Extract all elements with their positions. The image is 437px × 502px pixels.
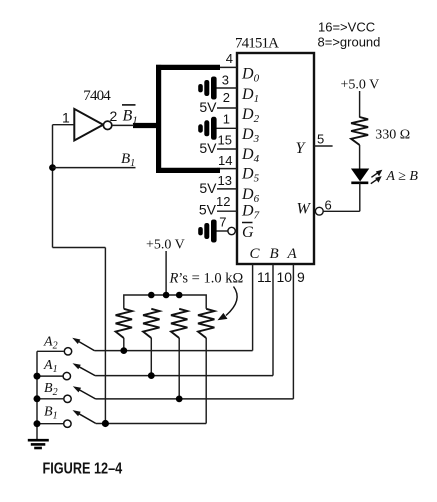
wire B1 stub east xyxy=(53,167,136,169)
resistor R4 1.0k xyxy=(198,309,214,338)
wire supply feed to rail xyxy=(165,251,167,295)
svg-text:12: 12 xyxy=(216,194,230,209)
resistor R1 1.0k xyxy=(116,309,132,338)
resistor 330 ohm xyxy=(351,117,368,145)
wire supply to resistor xyxy=(359,91,361,118)
svg-text:D2: D2 xyxy=(241,106,260,125)
bubble pin7 G invert xyxy=(228,227,235,234)
switch B1 contact xyxy=(64,420,71,427)
wire pin2 D2 stub xyxy=(217,107,237,109)
wire inverter input xyxy=(53,124,75,126)
svg-text:+5.0 V: +5.0 V xyxy=(341,78,380,93)
svg-text:Y: Y xyxy=(296,140,307,157)
switch B2 lever xyxy=(73,386,96,399)
junction A1-R2 xyxy=(148,372,155,379)
svg-text:2: 2 xyxy=(223,90,230,105)
wire A2 line to pin11 xyxy=(94,350,252,352)
resistor R3 1.0k xyxy=(171,309,187,338)
svg-text:G: G xyxy=(242,224,254,241)
svg-text:9: 9 xyxy=(297,269,305,285)
svg-text:16=>VCC: 16=>VCC xyxy=(318,20,375,35)
svg-text:11: 11 xyxy=(257,269,272,285)
svg-text:D3: D3 xyxy=(241,126,260,145)
LED light arrow upper xyxy=(371,170,382,178)
svg-text:8=>ground: 8=>ground xyxy=(318,35,381,50)
wire pin7 G stub xyxy=(217,230,229,232)
svg-text:B1: B1 xyxy=(123,108,138,127)
switch A2 lever xyxy=(72,338,94,351)
junction B1 tee xyxy=(49,164,56,171)
svg-text:A: A xyxy=(287,246,298,262)
svg-text:7: 7 xyxy=(219,214,226,229)
wire R4 bottom to B1 line xyxy=(205,338,207,424)
svg-text:3: 3 xyxy=(222,73,229,88)
wire switch common bus xyxy=(36,351,38,440)
svg-text:15: 15 xyxy=(218,133,232,148)
wire resistor to LED xyxy=(359,145,361,169)
LED D1 cathode bar xyxy=(351,182,368,185)
junction B2-R3 xyxy=(176,396,183,403)
wire R1 bottom to A2 line xyxy=(123,338,125,351)
wire pin10 B select xyxy=(272,264,274,376)
thick wire B1bar from inverter output xyxy=(133,123,159,128)
svg-text:B: B xyxy=(270,246,279,262)
inverter output bubble xyxy=(103,121,111,129)
wire pin11 C select xyxy=(252,264,254,351)
svg-text:+5.0 V: +5.0 V xyxy=(146,238,185,253)
svg-text:B2: B2 xyxy=(44,381,58,398)
junction bus A1 xyxy=(34,373,41,380)
wire rail top of resistor network xyxy=(124,295,206,309)
svg-text:14: 14 xyxy=(218,153,232,168)
wire B1 net jog horizontal xyxy=(53,247,106,249)
svg-text:5: 5 xyxy=(317,132,324,147)
switch A1 contact xyxy=(63,372,70,379)
switch A2 contact xyxy=(64,348,71,355)
svg-text:R’s = 1.0 kΩ: R’s = 1.0 kΩ xyxy=(169,271,244,287)
junction B1 net xyxy=(102,420,109,427)
wire switch A2 stub xyxy=(37,350,64,352)
svg-text:1: 1 xyxy=(223,112,230,127)
svg-text:A2: A2 xyxy=(43,335,58,352)
thick bus arm to D0 pin4 xyxy=(156,65,220,70)
wire pin5 Y stub xyxy=(314,145,333,147)
wire pin9 A select xyxy=(292,264,294,399)
wire B1 line to R4 xyxy=(96,423,207,425)
svg-text:D1: D1 xyxy=(241,86,259,105)
junction rail feed xyxy=(163,292,170,299)
svg-text:330 Ω: 330 Ω xyxy=(375,128,410,143)
svg-text:A1: A1 xyxy=(43,358,58,375)
ground symbol at pin1 D3 xyxy=(198,117,216,140)
svg-text:D0: D0 xyxy=(241,66,260,85)
svg-text:B1: B1 xyxy=(44,405,58,422)
ground symbol at pin3 D1 xyxy=(198,77,216,100)
svg-text:B1: B1 xyxy=(121,151,135,169)
svg-text:13: 13 xyxy=(218,173,232,188)
wire pin15 D4 stub xyxy=(217,148,237,150)
wire pin6 W to LED branch xyxy=(323,210,360,212)
wire LED to W pin6 xyxy=(359,183,361,212)
junction rail R3 xyxy=(176,292,183,299)
svg-text:5V: 5V xyxy=(199,140,217,156)
ground symbol at pin7 G xyxy=(198,220,216,243)
resistor R2 1.0k xyxy=(143,309,159,338)
wire pin3 D1 stub xyxy=(217,87,238,89)
svg-text:10: 10 xyxy=(277,269,293,285)
svg-text:7404: 7404 xyxy=(83,88,111,104)
svg-text:A ≥ B: A ≥ B xyxy=(385,169,418,184)
junction A2-R1 xyxy=(120,347,127,354)
switch A1 lever xyxy=(73,363,96,375)
LED D1 anode triangle xyxy=(352,169,368,181)
svg-text:D7: D7 xyxy=(241,203,260,222)
svg-text:74151A: 74151A xyxy=(235,36,279,52)
label B1bar xyxy=(122,105,138,127)
IC U1 74151A body xyxy=(237,53,314,264)
thick bus arm to D5 pin14 xyxy=(156,168,220,173)
svg-text:6: 6 xyxy=(325,198,332,213)
wire pin13 D6 stub xyxy=(217,188,237,190)
wire pin12 D7 stub xyxy=(217,210,237,212)
wire B1 net vertical left xyxy=(52,125,54,248)
inverter U2 7404 triangle xyxy=(74,109,103,141)
switch B1 lever xyxy=(73,410,96,423)
wire A1 line to pin10 xyxy=(95,375,273,377)
svg-text:D5: D5 xyxy=(241,166,260,185)
wire pin1 D3 stub xyxy=(217,127,238,129)
wire switch B2 stub xyxy=(37,398,63,400)
junction bus B2 xyxy=(34,395,41,402)
svg-text:4: 4 xyxy=(226,51,233,66)
svg-text:5V: 5V xyxy=(199,180,217,196)
wire R2 bottom to A1 line xyxy=(150,338,152,376)
svg-text:1: 1 xyxy=(62,110,70,126)
svg-text:W: W xyxy=(297,201,312,218)
wire pin4 D0 stub xyxy=(217,66,237,68)
wire B1 net vertical to switch B1 xyxy=(104,248,106,424)
switch B2 contact xyxy=(64,395,71,402)
arrow callout to R4 xyxy=(218,287,238,321)
svg-text:C: C xyxy=(250,246,261,262)
bubble pin6 W invert xyxy=(315,207,323,215)
wire switch B1 stub xyxy=(37,423,63,425)
svg-text:2: 2 xyxy=(110,108,118,124)
wire switch A1 stub xyxy=(37,375,63,377)
junction rail R2 xyxy=(148,292,155,299)
thick bus B1bar vertical xyxy=(156,65,161,173)
svg-text:D4: D4 xyxy=(241,146,260,165)
svg-text:5V: 5V xyxy=(199,201,217,217)
svg-text:FIGURE 12–4: FIGURE 12–4 xyxy=(43,460,123,477)
wire R3 bottom to B2 line xyxy=(178,338,180,399)
wire B2 line to pin9 xyxy=(96,398,294,400)
wire pin14 D5 stub xyxy=(217,168,237,170)
ground switch common xyxy=(28,440,49,448)
wire inverter output thin xyxy=(112,124,134,126)
label G-bar enable xyxy=(242,223,254,242)
junction bus B1 xyxy=(34,420,41,427)
svg-text:5V: 5V xyxy=(199,99,217,115)
LED light arrow lower xyxy=(371,176,382,184)
